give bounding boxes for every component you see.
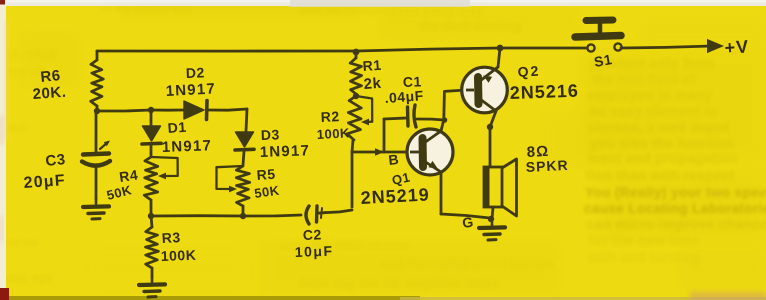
svg-text:10μF: 10μF	[295, 243, 334, 260]
wire node to R3	[151, 216, 152, 227]
svg-text:R5: R5	[256, 166, 276, 183]
svg-text:R6: R6	[40, 67, 62, 86]
node ground	[488, 216, 494, 222]
wire C1 to base node	[383, 119, 386, 152]
wire bottom rail left	[151, 214, 243, 217]
svg-text:R2: R2	[320, 108, 340, 125]
wire R5 wiper loop	[217, 166, 244, 189]
wire D3 to R5	[243, 151, 244, 165]
svg-text:Q2: Q2	[517, 62, 541, 80]
svg-text:1N917: 1N917	[165, 80, 216, 100]
svg-text:cause Locating Laboratories: cause Locating Laboratories	[584, 201, 766, 216]
capacitor C3	[82, 141, 110, 166]
wire to speaker	[489, 127, 492, 167]
wire switch to +V	[621, 46, 712, 48]
svg-text:stereos, a well depot: stereos, a well depot	[588, 120, 729, 135]
wire R3 to ground	[151, 268, 154, 277]
diode D2	[184, 101, 207, 120]
svg-text:B: B	[388, 151, 400, 168]
node R5/rail	[240, 213, 246, 219]
svg-text:2k: 2k	[363, 75, 382, 93]
ground (C3)	[83, 198, 109, 219]
wire Q1 collector to Q2 base	[441, 90, 466, 131]
svg-text:and thereafter point system: and thereafter point system	[380, 257, 555, 271]
ground (R3)	[139, 276, 165, 297]
svg-text:D2: D2	[186, 64, 205, 81]
node R6/C3/D1	[94, 108, 100, 114]
svg-text:for the new tone: for the new tone	[589, 233, 700, 248]
diode D3	[235, 132, 254, 150]
wire D2 to corner	[208, 109, 247, 110]
wire top +V rail	[97, 48, 586, 51]
svg-text:S1: S1	[593, 51, 614, 70]
svg-text:ment and propagation: ment and propagation	[588, 151, 738, 166]
svg-text:can micro-improve chance: can micro-improve chance	[587, 217, 766, 232]
wire R4 to node	[150, 200, 153, 216]
svg-text:G: G	[461, 214, 475, 231]
R4 wiper arrowhead	[158, 173, 166, 180]
wire Q1 emitter to ground node	[441, 214, 490, 218]
svg-text:2N5216: 2N5216	[509, 81, 579, 103]
svg-text:tion than with respect: tion than with respect	[586, 168, 734, 183]
wire R2 wiper loop	[356, 96, 372, 122]
svg-text:you also the function: you also the function	[590, 136, 734, 151]
svg-text:20μF: 20μF	[23, 172, 66, 192]
ground (output)	[479, 219, 505, 240]
wire to D2 anode	[151, 109, 183, 112]
wire Q1 emitter down	[440, 172, 443, 214]
svg-text:.04μF: .04μF	[384, 87, 424, 106]
svg-text:C2: C2	[303, 226, 322, 243]
R2 wiper arrowhead	[361, 119, 369, 126]
wire C1 right	[417, 119, 444, 120]
wire Q2 collector	[490, 111, 496, 127]
svg-text:SPKR: SPKR	[525, 157, 569, 175]
node R1/rail	[353, 49, 360, 56]
svg-text:R1: R1	[362, 57, 382, 74]
capacitor C1	[408, 105, 417, 127]
svg-text:the hint field of: the hint field of	[592, 72, 696, 87]
svg-text:100K: 100K	[316, 125, 350, 142]
R5 wiper arrowhead	[229, 186, 237, 193]
svg-text:for so: for so	[2, 235, 38, 249]
svg-text:1N917: 1N917	[162, 137, 213, 156]
transistor Q1	[407, 129, 453, 175]
node R4/R3/rail	[148, 213, 154, 219]
diode D1	[142, 126, 161, 144]
node C1/Q1/Q2	[442, 117, 448, 123]
+V arrowhead	[707, 39, 724, 53]
svg-text:20K.: 20K.	[32, 84, 67, 103]
wire node to D1 top	[97, 110, 151, 111]
resistor R3	[146, 227, 159, 268]
svg-text:D3: D3	[261, 126, 280, 143]
svg-text:C3: C3	[45, 151, 67, 170]
junction D1/D2	[148, 107, 154, 113]
wire riser C2/base node	[351, 152, 354, 207]
wire node to C3	[95, 111, 98, 152]
svg-text:D1: D1	[167, 119, 187, 136]
svg-text:from day the SE amplifier thos: from day the SE amplifier those	[300, 277, 500, 291]
wire rail to C2	[243, 215, 301, 216]
svg-text:You (Really) your two speed: You (Really) your two speed	[585, 185, 766, 200]
wire R5 to bottom rail	[242, 206, 245, 216]
svg-text:with and turning: with and turning	[587, 250, 699, 265]
wire C1 left	[384, 118, 406, 119]
svg-text:2N5219: 2N5219	[360, 184, 430, 208]
svg-text:employed in many: employed in many	[588, 88, 712, 103]
wire base node to R2	[352, 140, 353, 152]
switch S1	[575, 20, 622, 52]
wire to D1	[150, 110, 153, 126]
svg-text:1N917: 1N917	[260, 142, 311, 161]
svg-text:be easy element to: be easy element to	[590, 104, 718, 119]
potentiometer R5	[236, 166, 249, 206]
svg-text:R3: R3	[161, 229, 181, 246]
wire rail to R6	[96, 51, 99, 60]
transistor Q2	[462, 67, 508, 113]
svg-text:was sys: was sys	[3, 271, 53, 285]
wire C2 to riser	[319, 210, 352, 213]
svg-text:the dark winding: the dark winding	[420, 19, 522, 33]
wire C3 to ground	[95, 166, 98, 199]
wire base branch to Q1	[352, 151, 410, 154]
node R1/R2	[353, 93, 359, 99]
node Q2 emitter/rail	[497, 45, 504, 52]
wire R4 wiper loop	[151, 157, 178, 176]
capacitor C2	[306, 206, 326, 224]
potentiometer R2	[347, 96, 361, 140]
svg-text:on reliab: on reliab	[4, 47, 58, 61]
svg-text:+V: +V	[724, 36, 750, 58]
wire corner down to D3	[246, 109, 247, 131]
svg-text:100K: 100K	[161, 247, 197, 264]
wire R6 to node	[96, 106, 99, 111]
wire D1 to R4	[150, 145, 153, 156]
resistor R6	[91, 60, 104, 106]
base arrowhead	[375, 148, 384, 156]
speaker SPKR	[484, 159, 517, 216]
resistor R1	[350, 58, 362, 94]
node Q2 collector	[487, 124, 493, 130]
potentiometer R4	[144, 157, 158, 200]
wire rail to R1	[355, 52, 358, 58]
wire rail to Q2 emitter	[498, 48, 500, 67]
wire speaker to ground node	[492, 207, 493, 219]
